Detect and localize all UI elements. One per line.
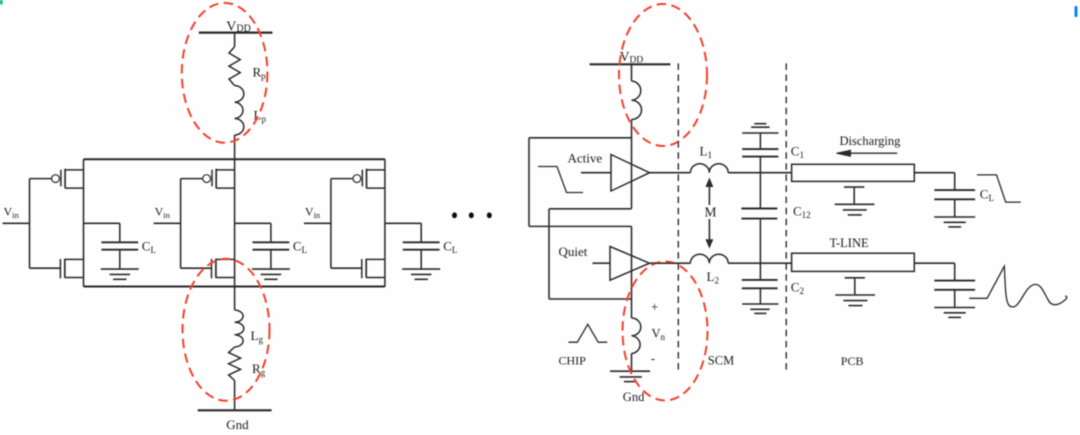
- svg-text:Discharging: Discharging: [840, 134, 902, 148]
- svg-text:SCM: SCM: [708, 354, 734, 368]
- svg-text:M: M: [705, 205, 717, 220]
- svg-text:Gnd: Gnd: [226, 417, 249, 432]
- svg-text:Active: Active: [568, 151, 603, 166]
- svg-text:+: +: [651, 299, 658, 314]
- svg-text:CHIP: CHIP: [559, 353, 587, 367]
- svg-text:T-LINE: T-LINE: [830, 236, 869, 250]
- svg-text:Quiet: Quiet: [559, 244, 588, 259]
- svg-text:PCB: PCB: [841, 354, 864, 368]
- svg-text:Gnd: Gnd: [623, 390, 645, 404]
- svg-text:-: -: [651, 351, 655, 366]
